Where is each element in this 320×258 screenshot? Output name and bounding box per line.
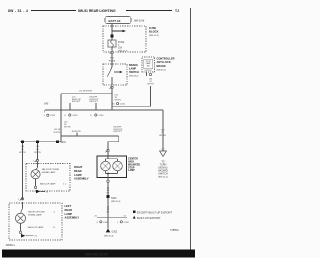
svg-text:ANTI-LOCK: ANTI-LOCK: [157, 60, 171, 64]
svg-text:LAMP: LAMP: [128, 169, 135, 172]
svg-text:BACK-UP LAMP: BACK-UP LAMP: [40, 183, 56, 186]
svg-text:S201: S201: [60, 141, 66, 144]
svg-text:C202: C202: [50, 115, 56, 117]
svg-text:CONTROLLER: CONTROLLER: [157, 57, 175, 61]
svg-text:FUSE: FUSE: [118, 42, 125, 44]
svg-text:PK/DB: PK/DB: [109, 60, 116, 62]
svg-text:S300: S300: [111, 198, 117, 200]
svg-text:BRAKE: BRAKE: [157, 64, 166, 68]
svg-text:WT/TN: WT/TN: [54, 132, 61, 134]
svg-text:C202: C202: [72, 115, 78, 117]
svg-text:SIGNAL LAMP: SIGNAL LAMP: [42, 171, 56, 174]
svg-text:SW: SW: [147, 65, 150, 67]
svg-text:S40: S40: [44, 103, 49, 106]
svg-text:TJ: TJ: [175, 9, 179, 13]
svg-text:LEFT: LEFT: [65, 204, 72, 208]
svg-text:TAIL/STOP/TURN: TAIL/STOP/TURN: [42, 168, 59, 171]
svg-text:LAMP: LAMP: [65, 212, 73, 216]
svg-text:WT/TN: WT/TN: [64, 126, 71, 128]
svg-text:(8W-15-3): (8W-15-3): [104, 235, 114, 237]
svg-text:(8W-52-2): (8W-52-2): [158, 177, 168, 179]
svg-text:EXPORT: EXPORT: [90, 101, 99, 103]
svg-text:(8W-33-2): (8W-33-2): [129, 75, 139, 77]
svg-text:15A: 15A: [118, 47, 123, 50]
svg-text:WT/TN: WT/TN: [159, 135, 166, 137]
svg-text:SIGNAL LAMP: SIGNAL LAMP: [28, 213, 42, 216]
svg-text:(8W-10-8): (8W-10-8): [134, 21, 145, 23]
svg-text:EXPORT: EXPORT: [72, 101, 81, 103]
svg-text:RIGHT: RIGHT: [74, 165, 83, 169]
svg-text:(8W-12-7): (8W-12-7): [118, 50, 128, 52]
svg-text:REAR: REAR: [74, 169, 82, 173]
svg-text:(8W-15-3): (8W-15-3): [111, 201, 121, 203]
svg-text:ASSEMBLY: ASSEMBLY: [65, 216, 80, 220]
svg-text:EXPORT: EXPORT: [114, 131, 123, 133]
svg-text:BATT A0: BATT A0: [109, 19, 121, 23]
svg-text:ASSEMBLY: ASSEMBLY: [74, 177, 89, 181]
svg-text:BACK-UP LAMP: BACK-UP LAMP: [28, 226, 44, 229]
svg-text:8W - 51 - 4: 8W - 51 - 4: [8, 9, 28, 13]
svg-text:J948W-4: J948W-4: [6, 245, 16, 247]
svg-text:EXCEPT BUILT-UP EXPORT: EXCEPT BUILT-UP EXPORT: [137, 210, 172, 214]
svg-text:G302: G302: [112, 231, 118, 233]
svg-text:WT/TN: WT/TN: [115, 99, 122, 101]
svg-text:OUTPUT: OUTPUT: [145, 70, 153, 72]
svg-text:SWITCH: SWITCH: [158, 172, 168, 175]
svg-text:WT/TN: WT/TN: [19, 152, 26, 154]
svg-text:SWITCH: SWITCH: [129, 71, 139, 74]
svg-text:WT/TN: WT/TN: [34, 152, 41, 154]
svg-text:L50 18 WT/TN: L50 18 WT/TN: [79, 91, 93, 93]
svg-text:BUILT-UP EXPORT: BUILT-UP EXPORT: [137, 216, 161, 220]
svg-text:BLOCK: BLOCK: [149, 30, 159, 34]
svg-text:FUSE: FUSE: [149, 26, 156, 30]
svg-text:TJ855A: TJ855A: [170, 229, 179, 232]
svg-text:C202: C202: [98, 115, 104, 117]
svg-text:TAIL/STOP/TURN: TAIL/STOP/TURN: [28, 211, 45, 214]
svg-text:80bb886 25b10f: 80bb886 25b10f: [85, 253, 108, 257]
svg-text:C100: C100: [120, 104, 126, 106]
svg-text:8W-51 REAR LIGHTING: 8W-51 REAR LIGHTING: [78, 9, 116, 13]
svg-text:REAR: REAR: [65, 208, 73, 212]
svg-text:WT/TN: WT/TN: [147, 84, 154, 86]
svg-text:C302: C302: [124, 222, 130, 224]
svg-text:(8W-12-2): (8W-12-2): [149, 35, 159, 37]
svg-text:18 WT/TN: 18 WT/TN: [72, 131, 82, 133]
svg-text:LAMP: LAMP: [74, 173, 82, 177]
svg-text:(8W-35-2): (8W-35-2): [157, 69, 167, 71]
